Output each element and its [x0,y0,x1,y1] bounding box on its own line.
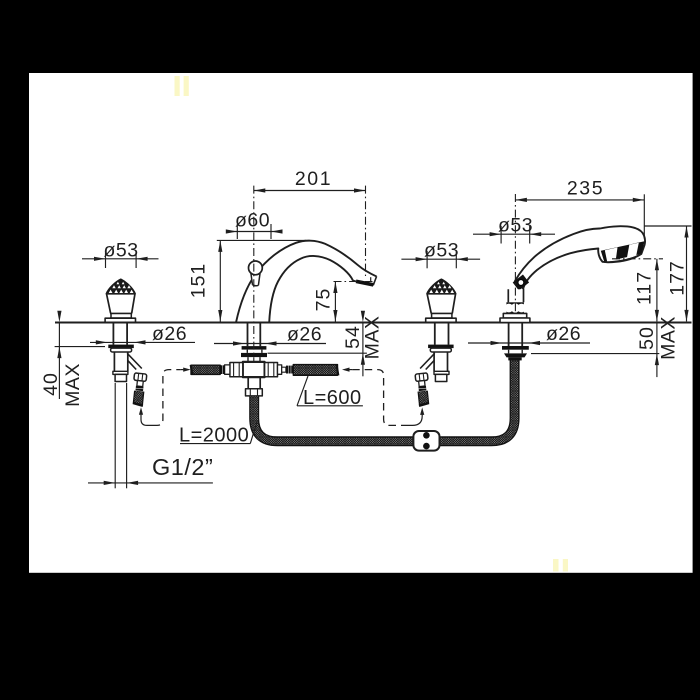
dimension 50 MAX [531,353,659,355]
tee left adapter [225,365,230,374]
svg-text:MAX: MAX [658,316,680,360]
dimension 201 [254,190,366,192]
spout locknut [242,346,267,350]
right routing arrow up [420,407,424,415]
handshower shank below deck [509,323,523,347]
outlet hex nut [134,373,147,382]
right handle H2 [426,279,456,322]
dimension ø53 handshower [473,233,555,235]
highlighter artifact bottom [553,559,568,572]
tee right adapter [278,365,282,374]
right routing arrow left [342,368,350,372]
tee left hex nut [230,363,243,377]
handshower locknut [502,346,529,350]
svg-text:151: 151 [188,263,210,299]
valve body [114,352,127,371]
dimension 75 [334,282,336,322]
spout ball joint [251,273,260,285]
tee right hose L600 [293,365,337,376]
dimension ø26 handshower [468,342,590,344]
dimension 177 [645,225,692,227]
handshower head face edge [604,254,641,262]
svg-text:MAX: MAX [62,363,84,407]
valve shank [113,323,127,345]
knob tapered body [107,294,135,313]
centerline handshower socket [514,194,516,313]
L=2000 handshower hose [254,359,514,442]
spout inner curve [269,256,353,323]
svg-text:50: 50 [636,326,658,350]
dimension 54 MAX [268,352,367,354]
svg-text:L=2000: L=2000 [179,425,249,447]
knob collar [111,313,131,318]
centerline spout outlet horizontal [334,281,373,283]
dimension 151 [217,239,306,241]
handshower hose nut [504,353,527,357]
svg-text:117: 117 [634,271,656,305]
svg-text:177: 177 [667,260,689,296]
svg-text:ø26: ø26 [287,324,322,346]
tee bottom port [248,377,260,389]
left routing arrow right [181,369,184,371]
dimension 40 MAX [55,346,105,348]
dimension ø26 left [90,341,195,343]
dimension ø26 middle [214,343,326,345]
label L=600 [297,405,363,407]
dimension ø53 left handle [82,258,159,260]
outlet ridges [136,386,144,389]
tee left hose L600 [191,365,220,374]
tee mixer body [243,362,265,377]
spout tip face [373,276,376,285]
svg-text:G1/2”: G1/2” [152,454,213,480]
dimension ø53 right handle [401,258,480,260]
centerline spout outlet [365,186,367,276]
handshower head bezel band [601,241,645,262]
dimension 117 [656,259,658,322]
svg-text:235: 235 [567,178,604,200]
valve angled outlet pipe [127,353,142,369]
handshower wand and head [515,226,645,288]
outlet neck [137,380,143,386]
valve locknut flange [108,345,134,349]
left valve V1 below deck [108,323,147,406]
handshower base step [503,313,526,318]
deck mounting surface line [55,322,692,324]
valve nut [111,348,132,352]
handle base flange [105,318,135,322]
spout outer curve [236,241,377,323]
crystal knob dome [106,279,135,294]
valve supply hose stub [138,391,139,404]
svg-text:MAX: MAX [362,316,384,360]
spout aerator band [356,281,373,285]
hose weight W1 [413,431,439,451]
spout washer [241,353,267,357]
dimension 235 [515,199,644,201]
handshower base plate [500,318,530,323]
left handle H1 [105,279,135,322]
svg-text:75: 75 [313,288,335,312]
centerline spout base [253,186,255,361]
centerline handshower face horizontal [612,258,663,260]
svg-text:ø53: ø53 [424,240,459,262]
left routing arrow up [139,407,143,415]
dimension ø60 [227,231,281,233]
svg-text:201: 201 [295,168,332,190]
svg-text:ø53: ø53 [103,240,138,262]
svg-text:ø53: ø53 [498,215,533,237]
handshower cradle cone [508,289,523,302]
right routing solid lead [406,415,422,426]
handshower cradle knurled ring [506,302,524,313]
right routing dashed path [352,370,406,426]
valve body step [113,371,128,374]
svg-text:ø26: ø26 [152,323,187,345]
left routing solid lead [141,414,153,425]
svg-text:L=600: L=600 [303,387,362,409]
svg-text:40: 40 [40,372,62,396]
svg-text:ø26: ø26 [546,323,581,345]
handshower wand nut [513,275,529,291]
right valve V2 below deck (mirrored) [415,323,454,406]
white drawing sheet [29,73,693,573]
tee right hex nut [265,363,278,377]
spout shank below deck [248,323,261,347]
dimension G1/2 [114,383,116,488]
label L=2000 [180,443,250,445]
highlighter artifact top [175,76,189,96]
knob shoulder line [106,293,135,295]
valve threaded end G1/2 [115,374,126,381]
svg-text:ø60: ø60 [235,210,270,232]
left routing dashed path [153,370,181,426]
